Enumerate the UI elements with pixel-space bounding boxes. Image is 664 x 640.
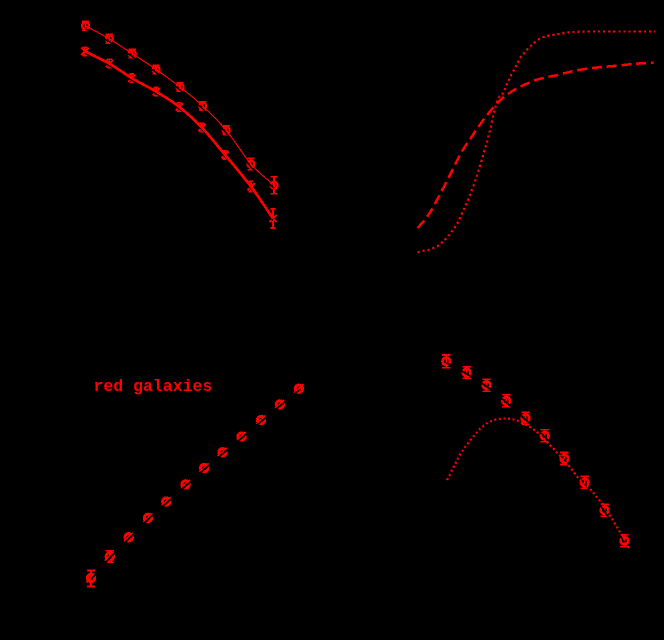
svg-text:red galaxies: red galaxies — [94, 377, 213, 396]
top-left: thin dashed red connecting line (upper series) — [86, 26, 275, 185]
slashed circle point — [106, 553, 113, 560]
black model curve overdraw (bottom-right) — [446, 363, 624, 543]
slashed circle point — [163, 498, 170, 505]
slashed circle point — [144, 514, 151, 521]
bottom-left: slashed-circle data points — [86, 384, 303, 586]
top-right: dotted red curve — [418, 32, 656, 253]
slashed circle point — [201, 464, 208, 471]
slashed circle point — [87, 574, 94, 581]
slashed circle point — [219, 449, 226, 456]
error bar P2 — [106, 551, 114, 563]
top-right: dashed red curve — [418, 63, 654, 228]
bottom-right: circle data points with error bars — [442, 355, 628, 547]
bottom-right: dotted red curve — [447, 418, 629, 549]
black model curve overdraw (bottom-left) — [91, 390, 299, 579]
slashed circle point — [257, 416, 264, 423]
top-left: cross-symbol series (lower curve) — [81, 47, 276, 228]
top-left: thick solid red connecting line (lower series) — [85, 51, 273, 218]
slashed circle point — [182, 481, 189, 488]
error bar P1 — [87, 571, 95, 587]
black model curve overdraw (lower series) — [85, 53, 273, 220]
slashed circle point — [276, 401, 283, 408]
slashed circle point — [238, 433, 245, 440]
slashed circle point — [125, 534, 132, 541]
slashed circle point — [295, 385, 302, 392]
top-left: circle-symbol series (upper curve) — [82, 22, 278, 194]
black model curve overdraw (upper series) — [86, 29, 275, 188]
